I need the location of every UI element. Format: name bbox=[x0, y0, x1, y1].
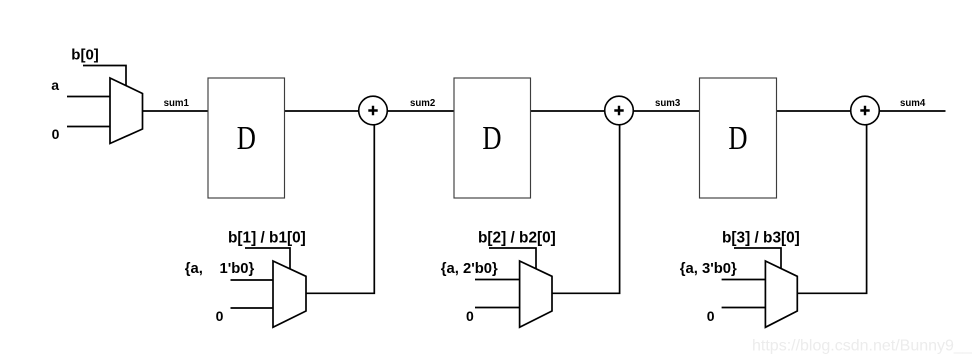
svg-text:b[3] / b3[0]: b[3] / b3[0] bbox=[722, 229, 800, 246]
svg-text:{a, 2'b0}: {a, 2'b0} bbox=[441, 261, 498, 277]
svg-text:https://blog.csdn.net/Bunny9__: https://blog.csdn.net/Bunny9__ bbox=[752, 337, 973, 354]
svg-text:b[0]: b[0] bbox=[71, 47, 99, 64]
svg-text:sum3: sum3 bbox=[655, 98, 681, 109]
svg-text:b[2] / b2[0]: b[2] / b2[0] bbox=[478, 229, 556, 246]
svg-text:D: D bbox=[728, 119, 747, 157]
svg-text:{a,: {a, bbox=[185, 261, 203, 277]
svg-text:b[1] / b1[0]: b[1] / b1[0] bbox=[228, 229, 306, 246]
svg-text:D: D bbox=[482, 119, 501, 157]
svg-text:0: 0 bbox=[707, 308, 715, 324]
svg-text:1'b0}: 1'b0} bbox=[220, 261, 255, 277]
svg-text:D: D bbox=[237, 119, 256, 157]
svg-text:0: 0 bbox=[216, 308, 224, 324]
svg-text:0: 0 bbox=[52, 126, 60, 142]
svg-text:sum1: sum1 bbox=[164, 98, 190, 109]
svg-text:a: a bbox=[51, 77, 59, 93]
svg-text:sum4: sum4 bbox=[900, 98, 926, 109]
svg-text:0: 0 bbox=[466, 308, 474, 324]
svg-text:sum2: sum2 bbox=[410, 98, 435, 109]
svg-text:{a, 3'b0}: {a, 3'b0} bbox=[680, 261, 737, 277]
